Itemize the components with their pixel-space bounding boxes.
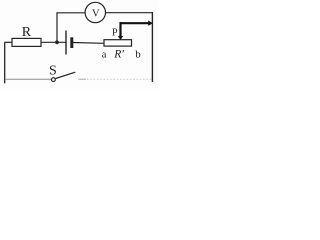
- wire: battery to rheostat: [73, 42, 104, 45]
- wire: voltmeter branch vertical: [56, 13, 58, 42]
- wiper down arrowhead P: [118, 36, 123, 40]
- svg-text:R′: R′: [113, 48, 124, 60]
- wire: short stub right of switch: [79, 78, 87, 80]
- switch S lever: [56, 72, 76, 78]
- svg-text:S: S: [49, 64, 57, 79]
- battery short thick plate: [70, 37, 73, 48]
- wiper arm junction arrowhead at right edge: [148, 21, 153, 26]
- svg-text:R: R: [22, 25, 32, 40]
- wiper arm horizontal thick wire: [120, 22, 149, 24]
- svg-text:b: b: [135, 48, 141, 60]
- wire: right vertical edge: [151, 12, 153, 82]
- svg-text:a: a: [102, 49, 107, 60]
- wire: left stub to resistor R: [4, 41, 12, 43]
- svg-text:V: V: [92, 9, 100, 20]
- svg-text:P: P: [112, 27, 118, 38]
- battery long plate: [65, 31, 67, 55]
- rheostat R' body: [104, 40, 132, 46]
- wire: faint dotted bottom right: [87, 78, 152, 80]
- wire: voltmeter branch top left horizontal: [56, 12, 85, 14]
- resistor R body: [12, 38, 41, 46]
- wiper arm vertical thick wire: [119, 22, 121, 36]
- voltmeter V: [85, 2, 105, 22]
- wire: resistor to battery: [41, 41, 66, 43]
- node: junction dot to voltmeter branch: [55, 40, 59, 44]
- switch S pivot contact: [52, 78, 56, 82]
- wire: left vertical edge: [4, 42, 6, 83]
- wire: voltmeter to top right corner: [106, 12, 154, 14]
- wire: bottom left horizontal to switch: [5, 78, 51, 80]
